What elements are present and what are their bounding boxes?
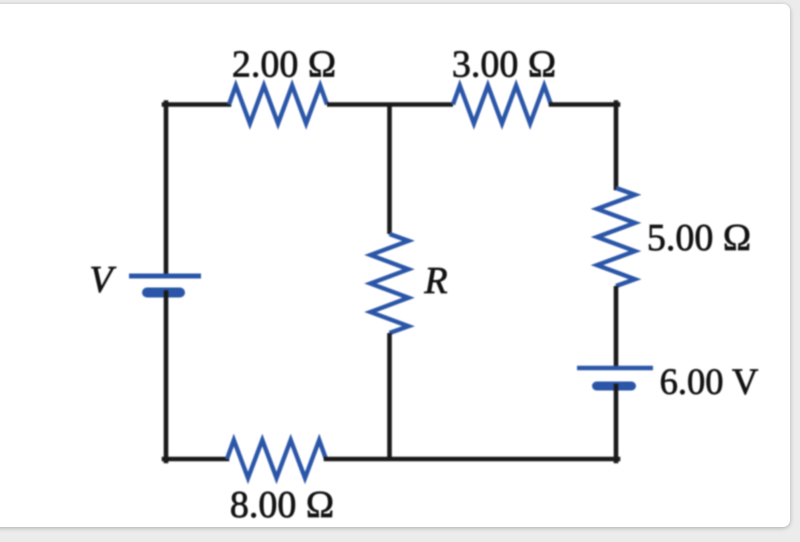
- resistor 2.00 ohm (top left): [229, 86, 327, 124]
- wire: left rail upper segment: [164, 103, 169, 277]
- wire: right rail middle segment: [614, 286, 619, 368]
- svg-text:V: V: [89, 259, 116, 301]
- svg-text:8.00 Ω: 8.00 Ω: [230, 484, 334, 526]
- node: top middle junction: [387, 105, 392, 235]
- wire: bottom rail right segment: [326, 457, 618, 462]
- svg-text:R: R: [423, 260, 447, 302]
- svg-text:2.00 Ω: 2.00 Ω: [232, 44, 336, 86]
- wire: right rail lower segment: [614, 386, 619, 461]
- wire: top rail left segment: [164, 102, 229, 107]
- battery 6.00 V (right source): [577, 368, 653, 386]
- svg-text:3.00 Ω: 3.00 Ω: [452, 44, 556, 86]
- wire: top rail right segment: [551, 102, 618, 107]
- resistor 3.00 ohm (top right): [453, 86, 551, 124]
- resistor 8.00 ohm (bottom): [227, 440, 326, 478]
- wire: right rail upper segment: [614, 103, 619, 189]
- wire: middle rail lower segment: [387, 333, 392, 461]
- resistor R (middle): [371, 234, 409, 333]
- svg-text:5.00 Ω: 5.00 Ω: [647, 217, 751, 259]
- svg-text:6.00 V: 6.00 V: [660, 361, 759, 402]
- resistor 5.00 ohm (right): [597, 188, 635, 286]
- wire: left rail lower segment: [164, 293, 169, 462]
- wire: top rail middle segment: [327, 102, 453, 107]
- wire: bottom rail left segment: [164, 457, 227, 462]
- battery V (left source): [129, 276, 201, 293]
